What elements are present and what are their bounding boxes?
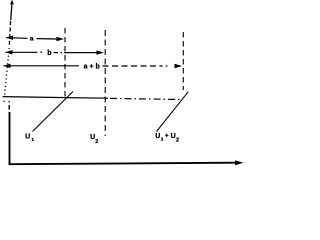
svg-text:a: a (30, 36, 34, 43)
svg-text:+: + (165, 133, 169, 140)
svg-text:2: 2 (176, 138, 179, 144)
svg-text:U: U (25, 133, 30, 140)
svg-text:a + b: a + b (84, 63, 100, 70)
svg-text:U: U (155, 133, 160, 140)
svg-text:1: 1 (161, 136, 164, 142)
svg-text:1: 1 (31, 137, 34, 143)
svg-text:b: b (47, 50, 51, 57)
svg-text:U: U (171, 133, 176, 140)
svg-text:2: 2 (95, 139, 98, 145)
